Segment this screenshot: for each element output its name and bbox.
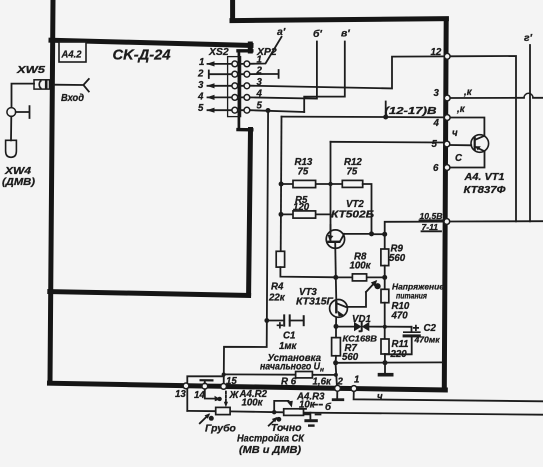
svg-text:100к: 100к [350,261,372,272]
svg-text:XW5: XW5 [16,64,45,76]
svg-text:(ДМВ): (ДМВ) [2,176,36,188]
svg-text:13: 13 [175,389,186,400]
svg-text:100к: 100к [242,398,264,409]
svg-text:VT2: VT2 [346,199,364,210]
svg-text:Ж: Ж [229,390,240,401]
svg-text:4: 4 [433,118,440,129]
svg-text:R 6: R 6 [281,377,297,388]
svg-text:560: 560 [389,253,406,264]
svg-text:Вход: Вход [61,92,84,104]
svg-text:ч: ч [452,128,458,139]
svg-text:КС168В: КС168В [343,334,378,344]
svg-text:470мк: 470мк [414,335,441,345]
svg-text:а′: а′ [277,27,286,38]
svg-text:5: 5 [432,139,438,150]
svg-text:560: 560 [342,352,359,363]
svg-text:2: 2 [337,377,344,388]
svg-text:Грубо: Грубо [205,423,237,435]
svg-text:3: 3 [434,88,440,99]
svg-text:A4. VT1: A4. VT1 [463,172,504,183]
svg-text:(12-17)В: (12-17)В [385,106,437,117]
svg-text:г′: г′ [524,33,533,44]
svg-text:5: 5 [257,101,263,112]
svg-text:КТ837Ф: КТ837Ф [464,185,507,196]
svg-text:14: 14 [194,390,205,401]
svg-text:(МВ и ДМВ): (МВ и ДМВ) [239,445,302,456]
svg-text:VD1: VD1 [352,314,371,325]
svg-text:C2: C2 [424,323,437,334]
svg-text:питания: питания [396,291,427,301]
svg-text:в′: в′ [341,29,350,40]
svg-text:1,6к: 1,6к [313,377,332,388]
svg-text:75: 75 [298,167,309,178]
svg-text:н: н [320,367,324,374]
svg-text:XP2: XP2 [256,47,277,58]
svg-text:120: 120 [293,202,310,213]
svg-text:2: 2 [256,66,263,77]
svg-text:Точно: Точно [271,423,302,434]
svg-text:,к: ,к [456,104,466,115]
svg-text:б: б [325,402,332,413]
svg-text:CK-Д-24: CK-Д-24 [113,48,171,64]
svg-text:3: 3 [198,80,204,91]
svg-text:Настройка СК: Настройка СК [237,434,305,445]
svg-text:12: 12 [431,47,442,58]
svg-text:4: 4 [197,92,204,103]
svg-text:,к: ,к [463,87,473,98]
svg-text:6: 6 [433,163,439,174]
svg-text:КТ315Г: КТ315Г [296,297,334,308]
svg-text:C1: C1 [283,331,295,342]
svg-text:б′: б′ [313,28,322,40]
svg-text:С: С [455,153,463,164]
svg-text:2: 2 [197,69,204,80]
svg-text:1мк: 1мк [279,341,298,352]
svg-text:22к: 22к [268,293,286,304]
svg-text:4: 4 [256,89,263,100]
svg-text:470: 470 [391,311,409,322]
svg-text:15: 15 [226,376,237,387]
svg-text:75: 75 [347,167,358,178]
svg-text:A4.2: A4.2 [61,49,82,61]
svg-text:R4: R4 [271,282,284,293]
svg-text:5: 5 [198,103,204,114]
svg-text:XS2: XS2 [208,47,229,58]
svg-text:ч: ч [377,392,383,403]
svg-text:КТ502Б: КТ502Б [331,210,374,221]
svg-text:1: 1 [199,57,204,68]
svg-text:1: 1 [354,375,359,386]
svg-text:3: 3 [257,77,263,88]
